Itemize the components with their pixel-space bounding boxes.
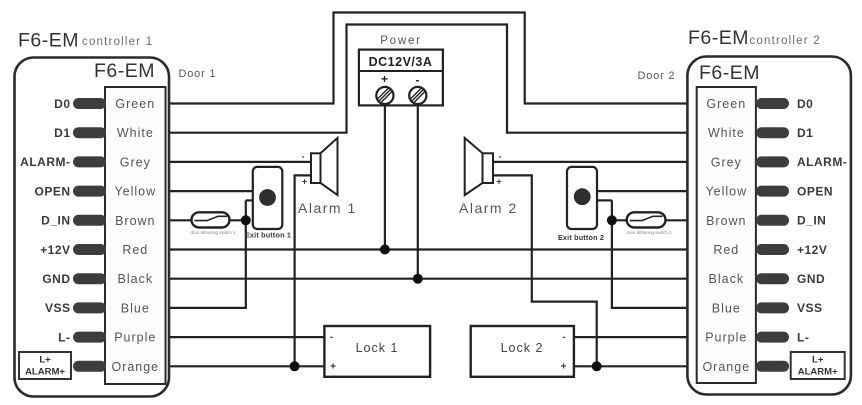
controller 1 outer box [15,58,170,397]
svg-text:VSS: VSS [45,301,71,315]
svg-text:ALARM+: ALARM+ [25,367,65,378]
wire purple right from lock2 [573,336,689,338]
alarm 2 speaker [465,138,493,195]
wire black GND bus row [167,278,688,280]
controller 2 pin row Purple [705,330,809,344]
svg-text:OPEN: OPEN [797,184,833,198]
power supply box [359,50,443,106]
svg-text:Power: Power [380,35,422,47]
controller 2 pin row Orange [702,360,789,374]
svg-text:Brown: Brown [706,214,746,228]
wire power minus down [417,103,419,279]
svg-text:Alarm 2: Alarm 2 [459,200,518,216]
controller 1 pin row Orange [73,360,159,374]
svg-text:F6-EM: F6-EM [94,60,155,82]
svg-text:+12V: +12V [797,243,827,257]
exit button 2 [567,167,597,229]
wire red +12V bus row [167,248,688,250]
svg-text:Door 1: Door 1 [179,68,217,80]
controller 1 pin row Blue [45,301,150,315]
wire grey left to alarm1 [167,161,312,163]
svg-text:Purple: Purple [114,331,156,345]
svg-text:Yellow: Yellow [114,185,156,199]
wire grey right from alarm2 [492,161,688,163]
svg-text:L+: L+ [39,355,51,366]
svg-text:Exit button 2: Exit button 2 [558,233,604,242]
junction dot power minus on black row [413,274,423,284]
svg-text:GND: GND [42,272,70,286]
junction dot node B door switch 2 [607,215,617,225]
controller 2 pin row White [708,126,814,140]
controller 2 inner wire box [697,87,756,383]
svg-text:ALARM+: ALARM+ [798,367,838,378]
svg-text:ALARM-: ALARM- [797,155,847,169]
svg-text:Green: Green [706,97,746,111]
wire green D0 outer loop [167,13,688,104]
door switch 1 [192,212,230,227]
svg-text:D0: D0 [54,97,70,111]
svg-text:Brown: Brown [115,214,155,228]
svg-text:D1: D1 [797,126,813,140]
svg-text:Door 2: Door 2 [638,70,676,82]
junction dot node A door switch 1 [241,215,251,225]
svg-text:D1: D1 [54,126,70,140]
svg-text:-: - [416,73,420,87]
svg-text:Red: Red [713,243,739,257]
controller 1 pin row Brown [41,214,155,228]
svg-text:Yellow: Yellow [705,185,747,199]
svg-text:controller 1: controller 1 [82,36,153,48]
svg-text:door dithering switch 2: door dithering switch 2 [626,230,672,235]
controller 1 pin row Purple [58,330,156,344]
svg-text:D_IN: D_IN [797,214,826,228]
controller 1 inner wire box [105,87,166,384]
svg-text:L+: L+ [812,355,824,366]
svg-text:-: - [330,332,333,343]
controller 2 pin row Black [709,272,826,286]
wire yellow left to exit button 1 [167,190,254,192]
power screw terminal minus [409,87,426,104]
controller 1 pin row Yellow [34,184,156,198]
wire power plus down [384,103,386,250]
svg-text:-: - [499,152,502,162]
svg-text:DC12V/3A: DC12V/3A [369,55,433,69]
svg-text:F6-EM: F6-EM [699,62,760,84]
svg-text:GND: GND [797,272,825,286]
controller 1 pin row Grey [20,155,151,169]
power screw terminal plus [376,87,393,104]
controller 2 pin row Yellow [705,184,833,198]
junction dot alarm1 plus on orange row [290,361,300,371]
wire brown left to door switch 1 [167,219,193,221]
wire door switch 1 to node A [229,219,248,221]
wire exit button 1 stub [246,199,254,201]
svg-text:+: + [496,177,501,187]
svg-text:Red: Red [122,243,148,257]
svg-text:door dithering switch 1: door dithering switch 1 [190,230,236,235]
controller 2 pin row Green [706,97,813,111]
svg-text:F6-EM: F6-EM [688,27,749,49]
svg-text:VSS: VSS [797,301,823,315]
svg-text:Orange: Orange [702,360,750,374]
controller 1 pin row Red [40,243,148,257]
svg-text:White: White [117,126,154,140]
svg-text:Lock 2: Lock 2 [501,341,544,355]
svg-text:-: - [302,152,305,162]
svg-text:L-: L- [797,330,809,344]
junction dot alarm2 plus on orange row [592,361,602,371]
svg-text:+: + [561,362,567,373]
alarm 1 speaker [311,138,338,195]
svg-text:Blue: Blue [121,301,150,315]
svg-text:F6-EM: F6-EM [18,30,79,52]
wire door switch 2 to controller [664,219,688,221]
svg-text:OPEN: OPEN [34,184,70,198]
svg-text:Exit button 1: Exit button 1 [245,231,291,240]
svg-text:Green: Green [115,97,155,111]
controller 2 outer box [687,57,851,395]
wire yellow right from exit button 2 [597,190,689,192]
wire orange left to lock1 [167,365,326,367]
svg-text:Alarm 1: Alarm 1 [298,200,357,216]
controller 1 L+ALARM+ box [19,352,71,379]
exit button 1 [253,167,282,229]
svg-text:Black: Black [709,272,745,286]
controller 1 pin row Black [42,272,153,286]
controller 2 L+ALARM+ box [791,352,845,379]
svg-text:Grey: Grey [120,155,151,169]
controller 2 pin row Red [713,243,827,257]
svg-text:Orange: Orange [111,360,159,374]
svg-text:controller 2: controller 2 [750,35,821,47]
svg-text:+12V: +12V [40,243,70,257]
controller 1 pin row Green [54,97,155,111]
svg-text:Black: Black [118,272,154,286]
svg-text:Blue: Blue [712,301,741,315]
svg-text:Lock 1: Lock 1 [356,341,399,355]
controller 2 pin row Blue [712,301,823,315]
junction dot power plus on red row [380,245,390,255]
door switch 2 [627,212,666,227]
wire exit button 2 stub [597,199,612,201]
wire node B vertical [611,200,613,308]
svg-text:+: + [330,362,336,373]
wire node A vertical [245,200,247,308]
wire alarm2 plus [492,175,597,366]
controller 2 pin row Brown [706,214,826,228]
svg-text:ALARM-: ALARM- [20,155,70,169]
lock 1 box [324,326,430,377]
wire blue VSS right [611,307,688,309]
svg-text:White: White [708,126,745,140]
power supply divider [359,70,443,72]
wire alarm1 plus [295,175,312,366]
svg-text:-: - [562,332,565,343]
wire node B to door switch 2 [612,219,628,221]
svg-text:D0: D0 [797,97,813,111]
svg-text:D_IN: D_IN [41,214,70,228]
controller 1 pin row White [54,126,154,140]
svg-text:+: + [381,72,388,86]
svg-text:L-: L- [58,330,70,344]
controller 2 pin row Grey [711,155,848,169]
wire purple left to lock1 [167,336,326,338]
svg-text:Purple: Purple [705,331,747,345]
svg-text:Grey: Grey [711,155,742,169]
svg-text:+: + [302,177,307,187]
wire white D1 inner loop [167,25,688,133]
wire blue VSS left [167,307,247,309]
wire orange right from lock2 [573,365,689,367]
lock 2 box [471,326,574,377]
